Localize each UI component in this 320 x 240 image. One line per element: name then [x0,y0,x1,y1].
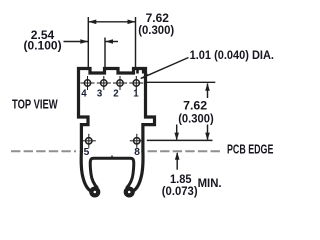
svg-text:1.01 (0.040) DIA.: 1.01 (0.040) DIA. [190,48,274,62]
svg-text:(0.073): (0.073) [162,184,198,198]
svg-text:2: 2 [113,88,118,99]
svg-text:5: 5 [84,147,90,158]
svg-text:PCB EDGE: PCB EDGE [227,141,274,156]
svg-text:8: 8 [134,147,140,158]
svg-text:TOP VIEW: TOP VIEW [12,97,58,111]
svg-text:1: 1 [133,88,139,99]
svg-text:4: 4 [81,88,87,99]
svg-text:(0.300): (0.300) [178,111,214,125]
svg-text:3: 3 [97,88,103,99]
svg-text:(0.100): (0.100) [24,38,62,52]
svg-text:MIN.: MIN. [198,176,222,190]
svg-text:(0.300): (0.300) [138,23,174,37]
